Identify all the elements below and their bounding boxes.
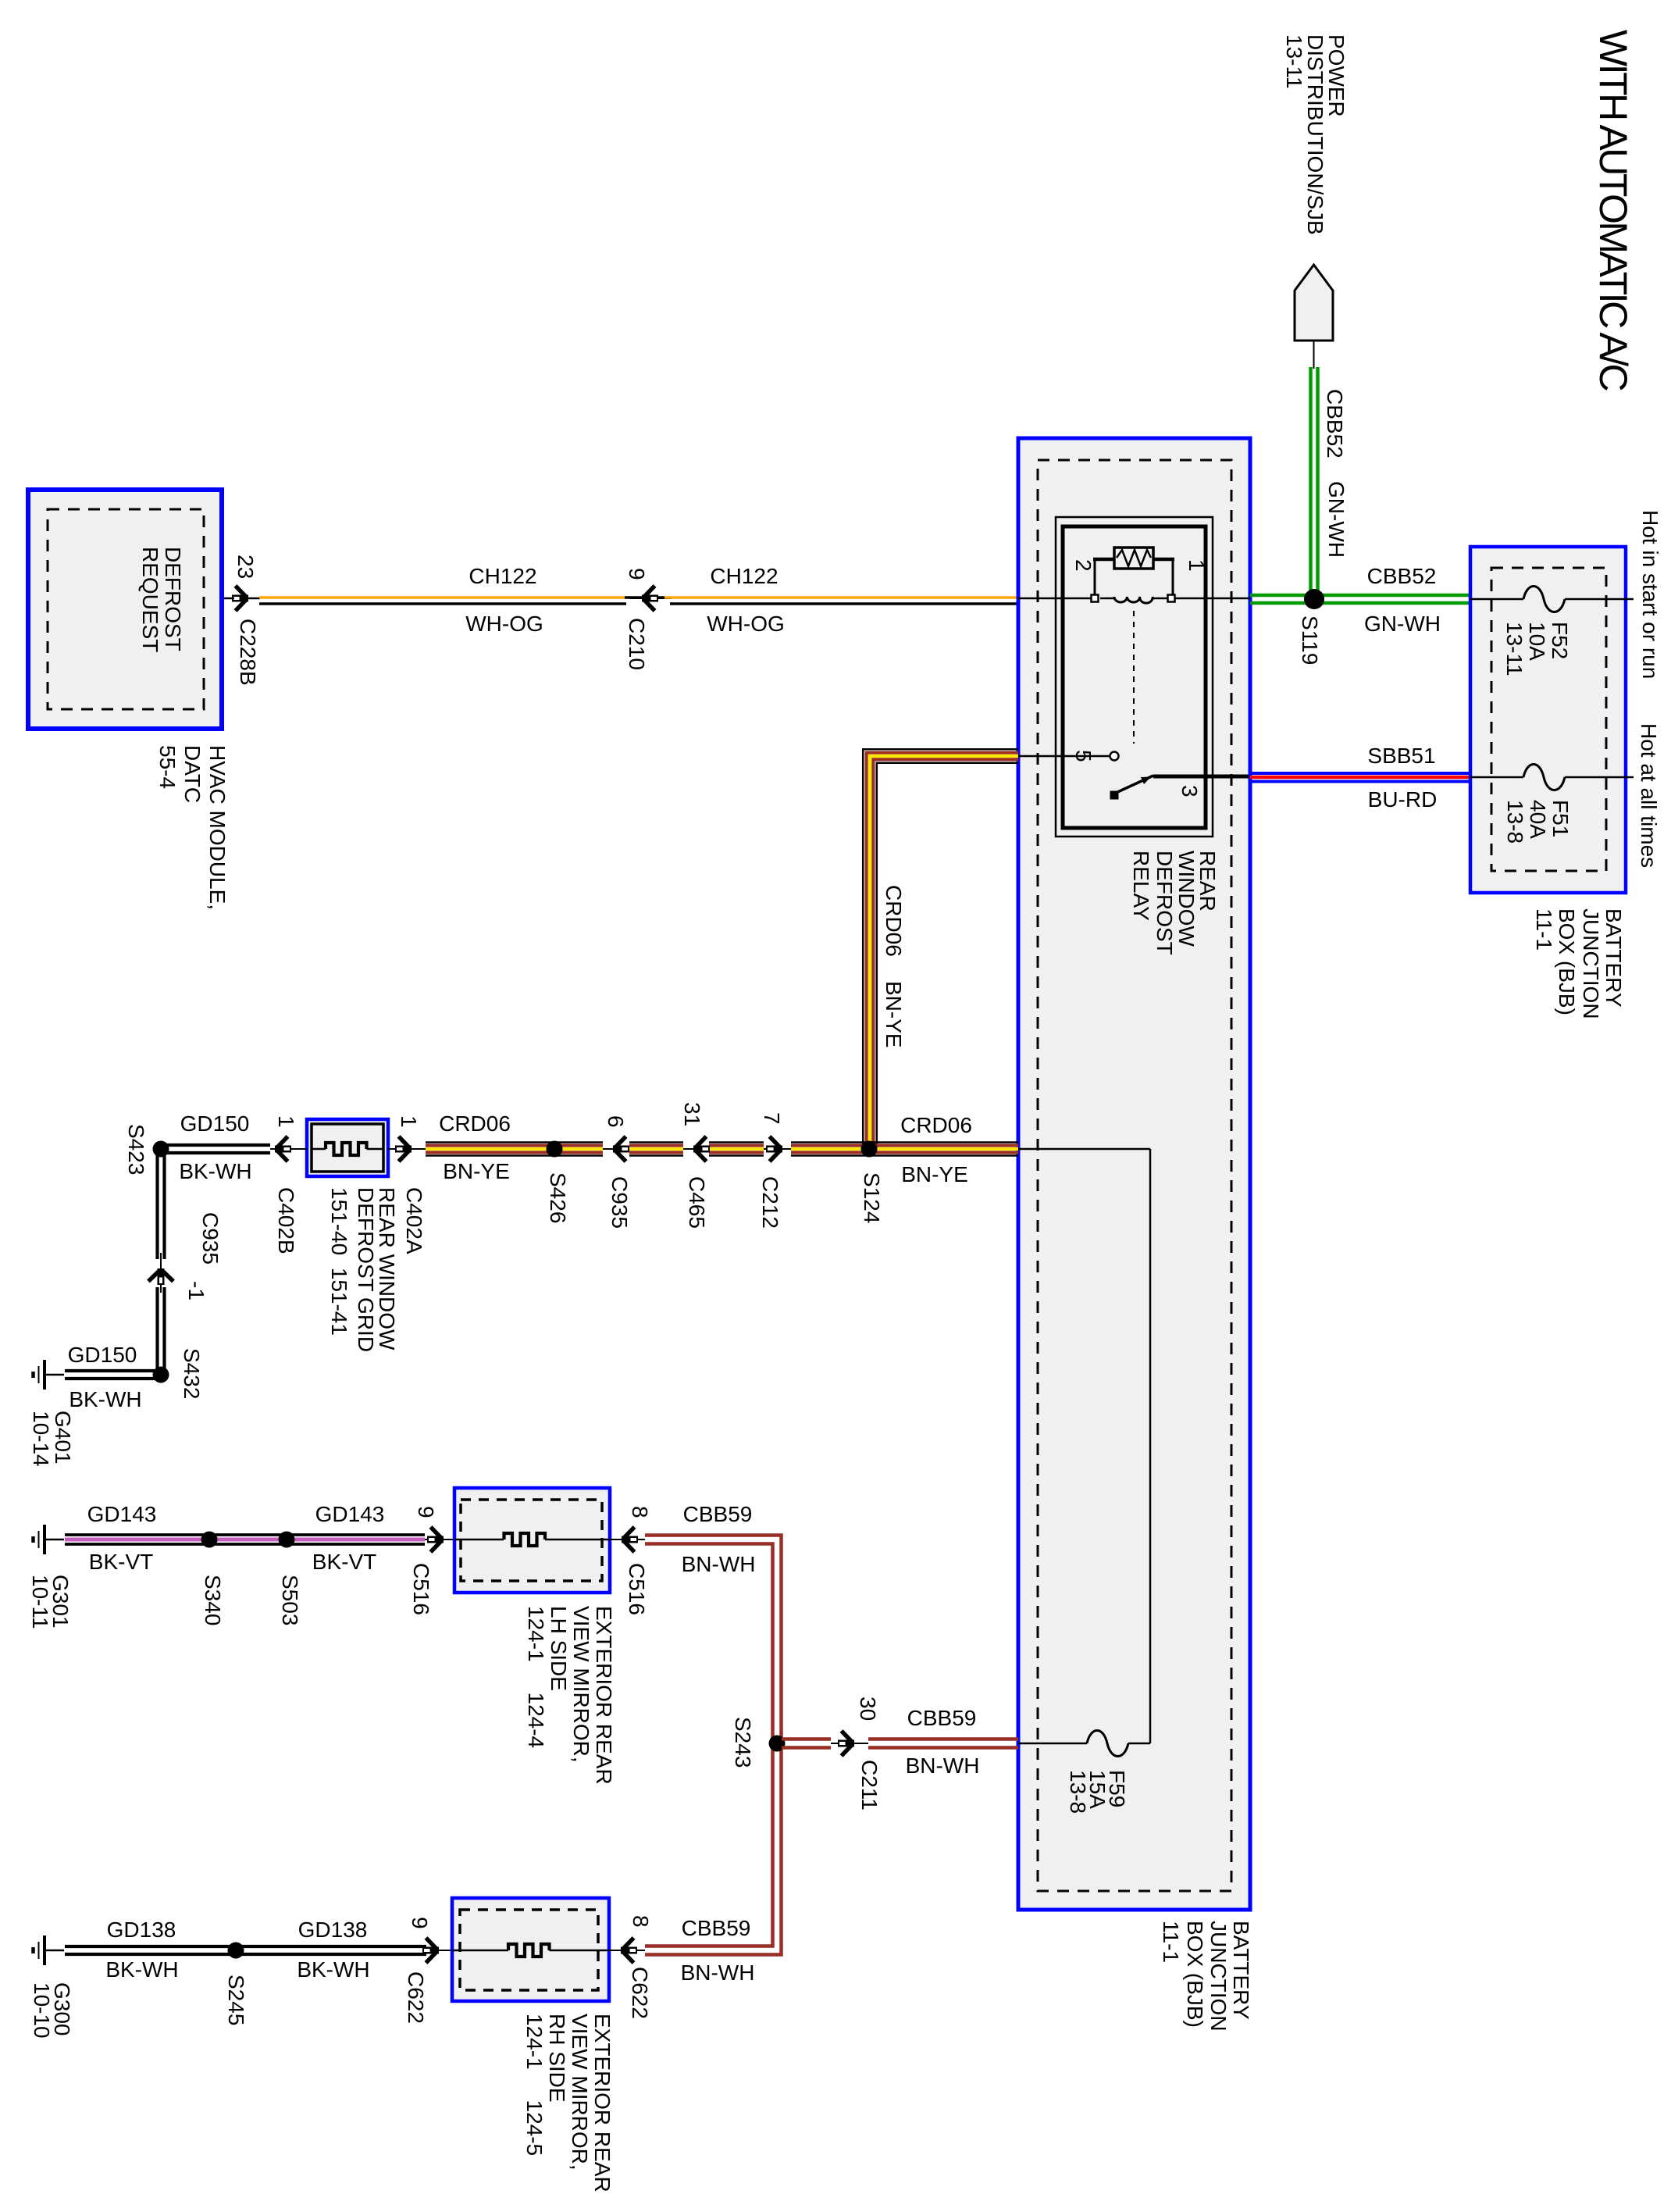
battery junction box (fuse box, top right) <box>1470 547 1626 893</box>
connector C228B <box>232 586 248 611</box>
svg-text:WH-OG: WH-OG <box>707 612 785 636</box>
svg-text:11-1: 11-1 <box>1159 1921 1183 1963</box>
fuse F59 15A <box>1018 1743 1087 1745</box>
svg-text:124-1 124-5: 124-1 124-5 <box>522 2014 547 2156</box>
relay pin 1 terminal <box>1168 595 1175 602</box>
svg-text:GD138: GD138 <box>107 1918 176 1942</box>
fuse F52 10A <box>1470 598 1523 601</box>
HVAC module box (DEFROST REQUEST) <box>28 490 222 729</box>
connector C935 -1 <box>160 1253 162 1293</box>
svg-text:C210: C210 <box>625 618 649 670</box>
ground G300 <box>34 1935 65 1965</box>
svg-text:13-11: 13-11 <box>1502 622 1527 676</box>
svg-text:10-11: 10-11 <box>28 1575 52 1629</box>
connector C622 pin 9 <box>426 1950 452 1951</box>
svg-text:9: 9 <box>414 1506 438 1518</box>
svg-text:C212: C212 <box>758 1176 782 1229</box>
svg-text:CBB59: CBB59 <box>907 1706 977 1730</box>
svg-text:8: 8 <box>628 1506 652 1518</box>
svg-text:Hot at all times: Hot at all times <box>1637 723 1661 868</box>
relay actuator dashed link <box>1133 611 1135 744</box>
wire SBB51 BU-RD <box>1250 772 1470 775</box>
svg-text:EXTERIOR REAR: EXTERIOR REAR <box>592 1606 616 1785</box>
svg-text:REQUEST: REQUEST <box>138 547 162 652</box>
svg-text:5: 5 <box>1071 750 1096 762</box>
splice S503 <box>279 1532 295 1548</box>
svg-text:SBB51: SBB51 <box>1367 744 1435 768</box>
svg-text:RELAY: RELAY <box>1129 851 1153 921</box>
svg-text:DEFROST: DEFROST <box>161 547 185 651</box>
svg-text:RH SIDE: RH SIDE <box>545 2014 569 2103</box>
svg-text:BK-VT: BK-VT <box>312 1550 376 1574</box>
wire CBB59 BN-WH to BJB <box>868 1737 1018 1741</box>
svg-text:13-8: 13-8 <box>1066 1770 1090 1814</box>
svg-text:C228B: C228B <box>236 619 260 686</box>
svg-text:HVAC MODULE,: HVAC MODULE, <box>205 745 230 910</box>
svg-text:CBB59: CBB59 <box>682 1916 751 1940</box>
svg-text:BATTERY: BATTERY <box>1229 1921 1253 2020</box>
svg-text:BK-VT: BK-VT <box>89 1550 153 1574</box>
svg-text:GD143: GD143 <box>315 1502 385 1526</box>
splice S119 <box>1304 589 1324 609</box>
wire CRD06 BN-YE vertical labels <box>882 885 906 1048</box>
svg-text:151-40 151-41: 151-40 151-41 <box>327 1187 351 1336</box>
splice S340 <box>201 1532 218 1548</box>
battery junction box (tall, with relay and F59) <box>1018 438 1250 1910</box>
svg-text:9: 9 <box>625 568 649 580</box>
relay pin 5 terminal <box>1018 755 1110 758</box>
svg-text:BN-WH: BN-WH <box>906 1754 980 1778</box>
connector C516 pin 8 <box>610 1539 645 1540</box>
wire CBB52 GN-WH vertical <box>1309 367 1313 597</box>
svg-text:31: 31 <box>680 1102 704 1126</box>
svg-text:C402B: C402B <box>274 1187 298 1254</box>
svg-text:30: 30 <box>856 1696 880 1721</box>
relay switch blade <box>1110 791 1119 800</box>
svg-text:WH-OG: WH-OG <box>465 612 543 636</box>
svg-text:BN-WH: BN-WH <box>682 1552 756 1576</box>
wire CBB59 stub S243 to C211 <box>782 1737 831 1741</box>
svg-text:C622: C622 <box>404 1971 428 2024</box>
wire CBB59 BN-WH (LH mirror to S243 to RH mirror) <box>645 1536 782 1955</box>
grid element <box>326 1143 367 1155</box>
svg-text:VIEW MIRROR,: VIEW MIRROR, <box>569 1606 593 1763</box>
connector C211 pin 30 <box>831 1743 868 1744</box>
svg-text:CBB59: CBB59 <box>683 1502 753 1526</box>
wire GD150 BK-WH upper <box>161 1143 270 1147</box>
wire CBB52 GN-WH horizontal <box>1250 594 1470 598</box>
svg-text:10A: 10A <box>1525 622 1549 661</box>
splice S243 <box>769 1736 786 1752</box>
svg-text:DATC: DATC <box>180 745 205 803</box>
svg-text:EXTERIOR REAR: EXTERIOR REAR <box>590 2014 615 2192</box>
connector C622 pin 8 <box>609 1950 645 1951</box>
svg-text:S243: S243 <box>731 1717 755 1768</box>
svg-text:10-14: 10-14 <box>29 1411 53 1467</box>
svg-text:BK-WH: BK-WH <box>179 1159 251 1183</box>
svg-text:C465: C465 <box>685 1176 709 1229</box>
svg-text:WITH AUTOMATIC A/C: WITH AUTOMATIC A/C <box>1591 30 1635 391</box>
svg-text:F52: F52 <box>1548 622 1572 659</box>
relay pin 3 <box>1153 775 1249 779</box>
relay coil <box>1100 598 1115 600</box>
svg-text:C516: C516 <box>409 1563 433 1615</box>
exterior rear view mirror RH box <box>452 1898 609 2001</box>
svg-text:S245: S245 <box>224 1975 248 2025</box>
svg-text:BATTERY: BATTERY <box>1602 908 1626 1008</box>
svg-text:GN-WH: GN-WH <box>1364 612 1441 636</box>
svg-text:BOX (BJB): BOX (BJB) <box>1183 1921 1207 2028</box>
svg-text:BN-YE: BN-YE <box>882 981 906 1048</box>
svg-text:C516: C516 <box>625 1563 649 1615</box>
relay pin 2 terminal <box>1092 595 1099 602</box>
BJB internal circuit to F59 <box>1018 1148 1150 1151</box>
svg-text:BN-WH: BN-WH <box>681 1960 755 1985</box>
svg-text:VIEW MIRROR,: VIEW MIRROR, <box>568 2014 592 2171</box>
splice S432 <box>153 1367 169 1383</box>
wire CRD06 BN-YE horizontal main run at grid level <box>426 1143 1018 1156</box>
connector C212 pin 7 <box>764 1148 791 1150</box>
ground G301 <box>34 1525 65 1554</box>
svg-text:BK-WH: BK-WH <box>297 1957 369 1982</box>
svg-text:GD143: GD143 <box>87 1502 157 1526</box>
splice S245 <box>228 1943 244 1959</box>
connector C402B pin 1 <box>270 1148 307 1150</box>
power distribution arrow symbol <box>1295 265 1333 341</box>
connector C465 pin 31 <box>683 1148 709 1150</box>
relay U1 REAR WINDOW DEFROST RELAY <box>1018 517 1249 955</box>
svg-text:S423: S423 <box>124 1124 148 1175</box>
connector C516 pin 9 <box>425 1539 454 1540</box>
svg-text:DEFROST GRID: DEFROST GRID <box>354 1187 378 1352</box>
svg-text:G401: G401 <box>51 1411 75 1465</box>
svg-text:GD150: GD150 <box>180 1111 250 1136</box>
connector C402A pin 1 <box>388 1148 426 1150</box>
svg-text:1: 1 <box>1185 559 1209 572</box>
wire CRD06 BN-YE from relay pin5: horizontal run to corner <box>863 749 1018 1149</box>
svg-text:BN-YE: BN-YE <box>443 1159 510 1183</box>
svg-text:9: 9 <box>408 1917 432 1929</box>
svg-text:3: 3 <box>1178 785 1202 797</box>
svg-text:GN-WH: GN-WH <box>1324 481 1349 558</box>
svg-text:GD150: GD150 <box>68 1343 137 1367</box>
svg-text:S124: S124 <box>860 1172 884 1223</box>
wire from relay pin1 to box edge <box>1175 598 1250 600</box>
svg-text:S503: S503 <box>278 1575 302 1625</box>
svg-text:CRD06: CRD06 <box>439 1111 511 1136</box>
svg-text:6: 6 <box>604 1115 628 1128</box>
grid element LH <box>504 1533 546 1546</box>
svg-text:S426: S426 <box>546 1172 570 1223</box>
svg-text:CBB52: CBB52 <box>1323 389 1347 458</box>
svg-text:55-4: 55-4 <box>155 745 180 789</box>
svg-text:S340: S340 <box>201 1575 225 1625</box>
svg-text:BN-YE: BN-YE <box>901 1162 968 1186</box>
svg-text:C211: C211 <box>857 1760 882 1811</box>
grid element RH <box>508 1944 550 1957</box>
fuse F51 40A <box>1470 776 1523 779</box>
connector C210 pin 9 <box>625 596 664 599</box>
wire GD150 BK-WH lower <box>65 1369 156 1372</box>
svg-text:CRD06: CRD06 <box>882 885 906 957</box>
svg-text:CBB52: CBB52 <box>1367 564 1437 588</box>
rear window defrost grid box <box>307 1119 388 1176</box>
splice S124 <box>861 1141 878 1158</box>
svg-text:S432: S432 <box>180 1348 204 1399</box>
svg-text:C402A: C402A <box>402 1187 426 1254</box>
wire GD138 BK-WH <box>65 1945 426 1948</box>
svg-text:WINDOW: WINDOW <box>1174 851 1199 947</box>
svg-text:C622: C622 <box>628 1967 652 2019</box>
svg-text:BK-WH: BK-WH <box>105 1957 178 1982</box>
svg-text:CH122: CH122 <box>469 564 536 588</box>
svg-text:S119: S119 <box>1298 615 1322 665</box>
svg-text:LH SIDE: LH SIDE <box>547 1606 571 1691</box>
svg-text:C935: C935 <box>607 1176 632 1229</box>
svg-text:Hot in start or run: Hot in start or run <box>1638 510 1662 679</box>
wire GD143 BK-VT <box>65 1535 425 1544</box>
svg-text:11-1: 11-1 <box>1532 908 1556 951</box>
svg-text:BOX (BJB): BOX (BJB) <box>1555 908 1579 1015</box>
svg-text:BK-WH: BK-WH <box>69 1387 141 1411</box>
svg-text:JUNCTION: JUNCTION <box>1579 908 1603 1019</box>
ground G401 <box>34 1360 65 1390</box>
wire GD150 vertical (S423 to S432) <box>155 1154 159 1259</box>
svg-text:40A: 40A <box>1526 800 1550 839</box>
svg-text:F51: F51 <box>1548 800 1573 837</box>
splice S423 <box>153 1141 169 1158</box>
svg-text:-1: -1 <box>184 1281 208 1300</box>
svg-text:1: 1 <box>274 1115 298 1128</box>
svg-text:8: 8 <box>629 1915 653 1928</box>
svg-text:2: 2 <box>1071 559 1096 572</box>
wire CH122 WH-OG segment 2 <box>664 596 1018 599</box>
splice S426 <box>547 1141 563 1158</box>
svg-text:DEFROST: DEFROST <box>1153 851 1177 955</box>
svg-text:CH122: CH122 <box>710 564 778 588</box>
svg-text:1: 1 <box>397 1115 421 1128</box>
relay coil wire entry <box>1018 598 1092 600</box>
resistor R (parallel with coil) <box>1094 559 1096 595</box>
svg-text:JUNCTION: JUNCTION <box>1206 1921 1231 2032</box>
connector C935 pin 6 <box>603 1148 629 1150</box>
svg-text:C935: C935 <box>198 1212 223 1265</box>
svg-text:10-10: 10-10 <box>30 1982 54 2039</box>
svg-text:124-1 124-4: 124-1 124-4 <box>524 1606 548 1748</box>
svg-text:7: 7 <box>760 1112 784 1125</box>
svg-text:BU-RD: BU-RD <box>1368 787 1438 812</box>
svg-text:GD138: GD138 <box>298 1918 368 1942</box>
svg-text:23: 23 <box>233 555 258 579</box>
svg-text:CRD06: CRD06 <box>900 1113 972 1137</box>
exterior rear view mirror LH box <box>454 1488 610 1593</box>
wire CH122 WH-OG segment 1 <box>259 596 625 599</box>
svg-text:13-8: 13-8 <box>1503 800 1527 844</box>
